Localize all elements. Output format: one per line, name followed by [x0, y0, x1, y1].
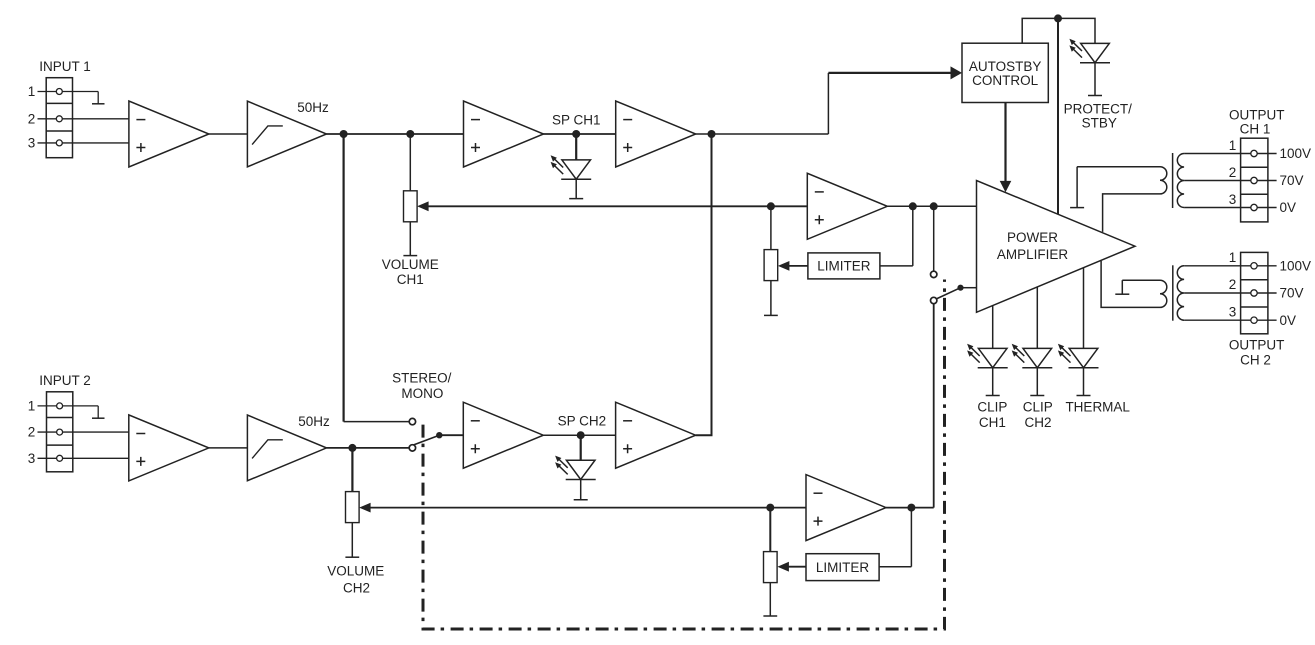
svg-text:0V: 0V: [1280, 200, 1297, 215]
svg-text:50Hz: 50Hz: [297, 100, 329, 115]
svg-text:OUTPUT: OUTPUT: [1229, 337, 1285, 352]
svg-text:CH 2: CH 2: [1240, 352, 1271, 367]
svg-text:CH2: CH2: [343, 581, 370, 596]
svg-text:INPUT 2: INPUT 2: [39, 373, 91, 388]
svg-text:PROTECT/: PROTECT/: [1064, 102, 1133, 117]
svg-text:3: 3: [28, 136, 36, 151]
svg-text:CH1: CH1: [979, 415, 1006, 430]
svg-text:1: 1: [28, 399, 36, 414]
svg-text:STEREO/: STEREO/: [392, 371, 452, 386]
svg-text:CLIP: CLIP: [1023, 399, 1053, 414]
svg-text:CH2: CH2: [1024, 415, 1051, 430]
svg-text:SP CH2: SP CH2: [558, 413, 607, 428]
svg-text:3: 3: [1229, 192, 1237, 207]
svg-text:LIMITER: LIMITER: [816, 560, 870, 575]
svg-text:SP CH1: SP CH1: [552, 113, 601, 128]
svg-text:100V: 100V: [1280, 258, 1312, 273]
svg-text:3: 3: [28, 451, 36, 466]
svg-text:2: 2: [28, 425, 36, 440]
svg-text:MONO: MONO: [401, 386, 443, 401]
svg-text:CLIP: CLIP: [977, 399, 1007, 414]
svg-text:50Hz: 50Hz: [298, 414, 330, 429]
svg-text:2: 2: [1229, 277, 1237, 292]
svg-text:POWER: POWER: [1007, 230, 1058, 245]
svg-text:70V: 70V: [1280, 173, 1304, 188]
svg-text:AUTOSTBY: AUTOSTBY: [969, 59, 1042, 74]
svg-text:70V: 70V: [1280, 286, 1304, 301]
svg-text:2: 2: [1229, 165, 1237, 180]
svg-text:1: 1: [1229, 138, 1237, 153]
svg-text:1: 1: [1229, 250, 1237, 265]
svg-text:2: 2: [28, 111, 36, 126]
svg-text:0V: 0V: [1280, 313, 1297, 328]
svg-text:100V: 100V: [1280, 146, 1312, 161]
svg-text:CH 1: CH 1: [1240, 121, 1271, 136]
svg-text:AMPLIFIER: AMPLIFIER: [997, 247, 1069, 262]
svg-text:1: 1: [28, 84, 36, 99]
svg-text:3: 3: [1229, 304, 1237, 319]
svg-text:LIMITER: LIMITER: [817, 259, 871, 274]
svg-text:CONTROL: CONTROL: [972, 73, 1038, 88]
svg-text:STBY: STBY: [1082, 116, 1117, 131]
svg-text:VOLUME: VOLUME: [327, 564, 384, 579]
svg-text:THERMAL: THERMAL: [1065, 399, 1130, 414]
svg-text:CH1: CH1: [397, 272, 424, 287]
svg-text:INPUT 1: INPUT 1: [39, 59, 91, 74]
svg-text:VOLUME: VOLUME: [382, 257, 439, 272]
